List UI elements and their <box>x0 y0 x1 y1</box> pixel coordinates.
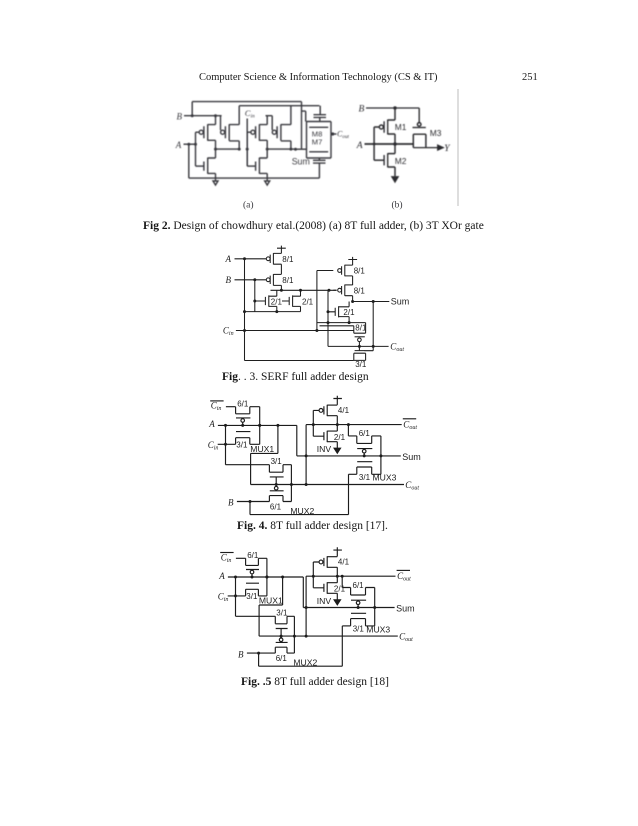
wire second rail fig2a <box>319 106 321 115</box>
wire bottom rail fig2a <box>189 177 320 179</box>
junction Cout-bar to MUX3 top input <box>347 423 350 426</box>
transistor stage2 PMOS right <box>272 130 276 134</box>
svg-text:M2: M2 <box>395 156 407 166</box>
svg-text:B: B <box>228 498 234 508</box>
transistor pair M8 M7 block <box>307 122 332 159</box>
svg-text:MUX1: MUX1 <box>259 596 283 606</box>
wire A column vertical <box>244 259 246 361</box>
wire INV input column <box>313 562 319 588</box>
wire N1R drain up to N1 <box>293 290 301 296</box>
svg-text:8/1: 8/1 <box>354 286 366 295</box>
MUX3 bottom pass transistor <box>351 619 375 626</box>
MUX2 top pass transistor <box>269 465 291 473</box>
inverter INV VDD symbol <box>333 396 342 405</box>
junction Cout at gates <box>358 345 361 348</box>
svg-text:4/1: 4/1 <box>338 558 350 567</box>
BP gate lead <box>358 342 360 347</box>
junction INV input <box>312 575 315 578</box>
svg-text:3/1: 3/1 <box>353 625 365 634</box>
wire block top-left feed <box>302 111 306 121</box>
wire node N1 (first stage output) <box>271 289 337 291</box>
junction to N2 gate <box>327 310 330 313</box>
svg-text:3/1: 3/1 <box>276 609 288 618</box>
svg-text:Sum: Sum <box>402 452 421 462</box>
wire INV PMOS source <box>327 556 337 558</box>
wire Cin column to P3 gate <box>317 271 333 331</box>
node B junction <box>253 278 256 281</box>
junction W1 at N2 source <box>348 321 351 324</box>
MUX3 gates <box>356 601 360 605</box>
junction A <box>234 576 237 579</box>
MUX2 bottom pass transistor <box>275 647 294 653</box>
wire stage2 gate column <box>247 132 251 166</box>
svg-text:8/1: 8/1 <box>282 255 294 264</box>
inverter INV VDD symbol <box>333 547 342 556</box>
transistor P4 8/1 (PMOS) <box>338 288 342 292</box>
wire Cin input <box>218 443 236 445</box>
ground arrow INV <box>334 600 340 605</box>
wire M1 source down <box>388 134 395 144</box>
wire to top <box>259 116 267 125</box>
node Sum junction <box>294 148 297 151</box>
wire M2 source down <box>388 167 395 176</box>
svg-text:2/1: 2/1 <box>271 297 283 306</box>
MUX3 bottom pass transistor <box>357 467 381 474</box>
svg-text:8/1: 8/1 <box>354 267 366 276</box>
wire N1 to P4 gate stub <box>333 289 336 291</box>
transistor N1R 2/1 (NMOS) <box>282 295 293 306</box>
VDD rail symbol (left) <box>277 246 286 249</box>
wire Cin-bar lead <box>226 406 236 408</box>
wire B input fig2b <box>366 108 419 123</box>
svg-text:B: B <box>177 112 183 122</box>
svg-text:6/1: 6/1 <box>276 654 288 663</box>
junction to wire W1 <box>327 321 330 324</box>
wire NMOS gate lead <box>247 165 255 167</box>
svg-text:Cout: Cout <box>403 419 417 431</box>
ground arrow stage2 <box>266 178 268 181</box>
svg-text:Cin: Cin <box>221 552 232 564</box>
svg-text:B: B <box>238 649 244 659</box>
wire Cout lead fig2a <box>331 133 337 135</box>
svg-text:INV: INV <box>317 444 332 454</box>
svg-text:A: A <box>218 571 225 581</box>
node A junction <box>243 257 246 260</box>
transistor INV NMOS 2/1 <box>313 582 327 593</box>
wire Cout-bar net <box>306 575 395 577</box>
wire P1 source to VDD <box>273 248 281 253</box>
wire top cap to block <box>314 115 327 122</box>
wire Cout net <box>328 345 389 347</box>
wire B input <box>184 115 222 117</box>
node N1 junction to P4 gate <box>328 289 331 292</box>
wire P4 drain to Sum node <box>345 296 353 302</box>
junction MUX1 output <box>265 576 268 579</box>
wire B column vertical <box>254 280 256 312</box>
wire to node <box>259 140 267 149</box>
wire M1 drain up <box>388 108 395 120</box>
svg-text:Cout: Cout <box>337 130 350 141</box>
svg-text:3/1: 3/1 <box>355 360 367 369</box>
arrow head Y <box>438 145 443 150</box>
junction INV output <box>336 423 339 426</box>
wire INV PMOS source <box>327 404 337 406</box>
node N1 junction at N1R drain <box>299 289 302 292</box>
wire stage2 node to Sum <box>291 148 296 150</box>
wire B input <box>237 501 270 503</box>
wire P2 source stub <box>273 273 281 275</box>
wire gate hang from input rail <box>220 116 222 131</box>
transistor stage2 NMOS <box>256 158 260 174</box>
wire INV PMOS drain to output <box>327 416 337 425</box>
svg-text:MUX3: MUX3 <box>373 473 397 483</box>
wire inverter column down <box>305 576 307 636</box>
wire MUX1 output to MUX2 select <box>259 577 283 636</box>
wire NMOS source <box>259 173 267 178</box>
svg-text:6/1: 6/1 <box>353 581 365 590</box>
wire upper inter-stage rail <box>239 105 319 107</box>
svg-text:A: A <box>208 419 215 429</box>
transistor P3 8/1 (PMOS) <box>338 269 342 273</box>
wire P4 source stub <box>345 284 353 286</box>
svg-text:M7: M7 <box>312 138 323 147</box>
wire MUX1 output to MUX2 select <box>251 425 278 484</box>
svg-text:B: B <box>226 275 232 285</box>
MUX2 common output rail <box>293 616 295 653</box>
junction Cout at pass column <box>372 345 375 348</box>
wire MUX3 select / Sum net <box>297 425 401 456</box>
transistor P1 8/1 (PMOS) <box>266 257 270 261</box>
wire Cout net <box>251 484 404 486</box>
MUX3 common output rail <box>380 436 382 474</box>
transistor M2 (NMOS) <box>384 153 388 167</box>
MUX1 top pass transistor <box>236 407 260 414</box>
wire INV NMOS source to ground <box>327 593 337 600</box>
wire gate column fig2b <box>374 127 379 160</box>
svg-text:3/1: 3/1 <box>359 473 371 482</box>
wire A select / MUX1 output rail <box>218 424 297 426</box>
transistor INV NMOS 2/1 <box>313 431 327 442</box>
figure 5: 8T full adder design [18] <box>200 542 440 678</box>
MUX1 gates <box>250 570 254 574</box>
wire NMOS drain <box>208 149 216 158</box>
junction Cin at A column <box>243 329 246 332</box>
junction Cout at inverter column <box>305 483 308 486</box>
svg-text:(b): (b) <box>392 200 403 211</box>
MUX2 gates <box>279 638 283 642</box>
wire W2 <box>320 325 354 327</box>
junction MUX1 output branch <box>276 424 279 427</box>
wire P3 drain to P4 source <box>345 276 353 285</box>
wire inverter column down <box>305 425 307 485</box>
transistor INV PMOS 4/1 <box>319 560 323 564</box>
BP gate bar <box>355 336 365 338</box>
MUX3 gates <box>362 449 366 453</box>
wire Cout net <box>259 635 398 637</box>
wire INV NMOS drain <box>327 425 337 432</box>
wire top rail fig2a <box>192 102 301 150</box>
junction B <box>257 652 260 655</box>
wire stage2 output node <box>267 148 291 150</box>
svg-text:3/1: 3/1 <box>246 592 258 601</box>
svg-text:8/1: 8/1 <box>355 324 367 333</box>
BP gate bubble <box>358 338 362 342</box>
svg-text:MUX3: MUX3 <box>366 624 390 634</box>
transistor INV PMOS 4/1 <box>319 409 323 413</box>
wire B to MUX3 bottom input <box>250 474 349 514</box>
wire B input <box>235 279 267 281</box>
wire INV NMOS source to ground <box>327 442 337 449</box>
svg-text:6/1: 6/1 <box>359 429 371 438</box>
caption figure 2 <box>143 220 484 232</box>
wire M2 gate lead <box>374 159 384 161</box>
wire M3 channel staple <box>413 134 426 147</box>
caption figure 4 <box>237 520 388 532</box>
transistor stage2 PMOS left <box>251 130 255 134</box>
junction Cin to P3 gate column <box>315 329 318 332</box>
svg-text:2/1: 2/1 <box>334 433 346 442</box>
svg-text:3/1: 3/1 <box>271 457 283 466</box>
wire to node <box>281 141 291 149</box>
wire Cin line <box>236 330 354 332</box>
running header <box>199 72 437 83</box>
svg-text:Cin: Cin <box>218 592 229 604</box>
scan border line <box>457 89 459 206</box>
wire left outer <box>188 144 190 178</box>
junction source rail <box>275 310 278 313</box>
wire to top <box>208 116 216 125</box>
svg-text:A: A <box>225 254 232 264</box>
svg-text:6/1: 6/1 <box>247 551 259 560</box>
junction MUX1 output branch <box>281 576 284 579</box>
wire pass column right <box>365 302 374 351</box>
junction MUX1 output <box>258 424 261 427</box>
junction INV input <box>312 423 315 426</box>
wire N1L source down <box>269 306 277 311</box>
svg-text:MUX1: MUX1 <box>250 444 274 454</box>
wire A input <box>184 143 196 145</box>
junction Cout at inverter column <box>305 635 308 638</box>
svg-text:Sum: Sum <box>396 604 415 614</box>
wire N1 down-column <box>327 290 329 346</box>
svg-text:2/1: 2/1 <box>343 308 355 317</box>
wire to upper rail <box>229 106 239 125</box>
svg-text:6/1: 6/1 <box>270 502 282 511</box>
wire INV PMOS drain to output <box>327 567 337 576</box>
wire stage2 input rail stub <box>266 115 273 117</box>
wire A select / MUX1 output rail <box>228 576 303 578</box>
svg-text:Cin: Cin <box>223 326 234 338</box>
wire INV NMOS drain <box>327 576 337 583</box>
transistor N1L 2/1 (NMOS) <box>255 295 269 306</box>
wire P1 drain to P2 source <box>273 264 281 274</box>
wire bottom return <box>245 360 354 362</box>
svg-text:4/1: 4/1 <box>338 406 350 415</box>
MUX1 top pass transistor <box>246 558 267 565</box>
junction Sum at P4 drain <box>351 300 354 303</box>
junction Sum to pass column <box>372 300 375 303</box>
wire MUX3 bottom lead left <box>349 473 357 475</box>
junction at Sum select line <box>305 454 308 457</box>
MUX1 bottom pass transistor <box>246 589 267 596</box>
wire to node <box>208 140 216 149</box>
wire Cout-bar to MUX3 top <box>342 576 350 587</box>
MUX1 gates <box>241 419 245 423</box>
wire NMOS pair source rail <box>245 311 301 313</box>
junction at Sum select line <box>305 606 308 609</box>
wire B input <box>247 652 275 654</box>
ground arrow fig2b <box>392 177 398 182</box>
MUX3 top pass transistor <box>351 588 375 596</box>
caption figure 5 <box>241 676 389 688</box>
junction B column to N1L gate <box>253 300 256 303</box>
MUX1 bottom pass transistor <box>236 438 260 445</box>
MUX3 top pass transistor <box>357 436 381 444</box>
wire NMOS gate lead <box>196 165 204 167</box>
MUX2 bottom pass transistor <box>269 496 291 502</box>
wire A input <box>365 143 414 145</box>
svg-text:Cout: Cout <box>405 480 419 492</box>
transistor M1 (PMOS) <box>379 125 383 129</box>
transistor BN 3/1 (NMOS) <box>355 346 365 350</box>
wire N2 drain up to Sum <box>339 302 350 307</box>
transistor N2 2/1 (NMOS) <box>328 306 339 317</box>
MUX1 common output rail <box>266 558 268 596</box>
svg-text:Sum: Sum <box>391 297 410 307</box>
wire Sum output <box>353 301 390 303</box>
svg-text:A: A <box>175 140 182 150</box>
wire stage1 gate column <box>196 132 200 166</box>
MUX1 common output rail <box>259 407 261 445</box>
wire to node <box>229 141 239 149</box>
junction A <box>224 424 227 427</box>
wire Cin column <box>246 119 248 167</box>
MUX3 common output rail <box>374 588 376 626</box>
wire N2 source down to W1 <box>339 317 350 323</box>
wire N1L drain up to N1 <box>269 290 277 296</box>
wire gate hang from input rail <box>271 116 273 131</box>
svg-text:INV: INV <box>317 596 332 606</box>
svg-text:B: B <box>359 105 365 115</box>
wire A column down to MUX2 top input <box>236 577 276 616</box>
junction Cin with A column <box>224 443 227 446</box>
figure 2: chowdhury 8T full adder and 3T XOR <box>170 88 460 213</box>
transistor M3 (PMOS) <box>417 123 421 127</box>
svg-text:Y: Y <box>444 144 451 154</box>
wire stage1 output node <box>216 148 240 150</box>
svg-text:Cin: Cin <box>208 440 219 452</box>
page number 251 <box>522 72 538 83</box>
wire M2 drain up <box>388 144 395 154</box>
svg-text:3/1: 3/1 <box>236 440 248 449</box>
svg-text:(a): (a) <box>243 200 254 211</box>
MUX2 top pass transistor <box>275 616 294 624</box>
wire Y output <box>413 147 438 149</box>
wire MUX3 bottom lead left <box>342 625 350 627</box>
svg-text:Cin: Cin <box>211 401 222 413</box>
ground arrow stage1 <box>215 178 217 181</box>
MUX2 gates <box>274 486 278 490</box>
wire Cin-bar lead <box>236 557 246 559</box>
wire bottom cap <box>313 158 326 178</box>
svg-text:Cout: Cout <box>397 571 411 583</box>
svg-text:Cout: Cout <box>390 342 404 354</box>
wire INV input column <box>313 410 319 436</box>
svg-text:2/1: 2/1 <box>334 585 346 594</box>
ground arrow INV <box>334 448 340 453</box>
svg-text:Cout: Cout <box>399 632 413 644</box>
wire MUX3 select / Sum net <box>303 577 394 608</box>
wire Sum stub <box>296 148 307 150</box>
svg-text:6/1: 6/1 <box>237 399 249 408</box>
MUX2 common output rail <box>290 465 292 502</box>
wire Cout-bar to MUX3 top <box>348 425 356 436</box>
transistor stage1 PMOS right <box>221 130 225 134</box>
junction B <box>249 500 252 503</box>
wire Cout-bar net <box>306 424 402 426</box>
figure 3: SERF full adder <box>205 240 435 375</box>
node N1 junction at P2 drain <box>280 289 283 292</box>
wire A input <box>235 258 267 260</box>
wire A column down to MUX2 top input <box>226 425 270 464</box>
transistor stage1 PMOS left <box>199 130 203 134</box>
wire B to MUX3 bottom input <box>259 626 343 666</box>
transistor stage1 NMOS <box>204 158 208 174</box>
svg-text:2/1: 2/1 <box>302 297 314 306</box>
svg-text:8/1: 8/1 <box>282 276 294 285</box>
wire P2 drain down to node N1 <box>273 285 281 290</box>
svg-text:M3: M3 <box>430 128 442 138</box>
junction Cin with A column <box>234 594 237 597</box>
wire NMOS drain <box>259 149 267 158</box>
caption figure 3 <box>222 371 369 383</box>
figure 4: 8T full adder design [17] <box>200 390 440 522</box>
junction A column with source wire <box>243 310 246 313</box>
wire W1 <box>317 322 366 324</box>
svg-text:A: A <box>356 141 363 151</box>
transistor BP 8/1 pass (PMOS) <box>354 323 366 334</box>
junction Cout-bar to MUX3 top input <box>341 575 344 578</box>
svg-text:Cin: Cin <box>245 108 255 120</box>
svg-text:M1: M1 <box>395 122 407 132</box>
wire NMOS source <box>208 173 216 178</box>
wire N1R source down <box>293 306 301 311</box>
transistor P2 8/1 (PMOS) <box>266 278 270 282</box>
VDD rail symbol (right) <box>348 257 357 260</box>
wire P3 source to VDD <box>345 260 353 266</box>
junction INV output <box>336 575 339 578</box>
wire to upper rail <box>281 106 291 125</box>
wire Cin input <box>228 595 246 597</box>
